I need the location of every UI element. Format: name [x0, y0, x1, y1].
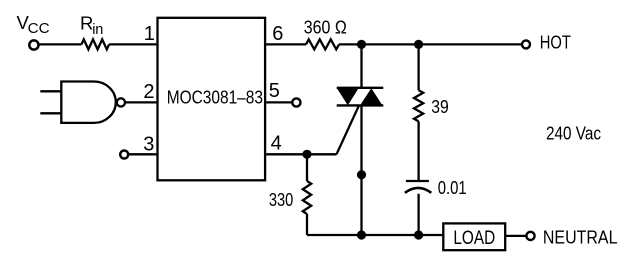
- wire: [40, 90, 61, 92]
- terminal VCC: [29, 40, 38, 49]
- label VCC: [17, 12, 50, 37]
- svg-text:NEUTRAL: NEUTRAL: [543, 226, 618, 247]
- resistor 39: [414, 44, 423, 180]
- label Rin: [80, 12, 103, 38]
- junction: [302, 150, 311, 159]
- NAND gate: [61, 82, 125, 123]
- resistor Rin: [82, 39, 110, 49]
- wire: [505, 235, 526, 237]
- svg-text:3: 3: [143, 133, 154, 155]
- wire: [265, 153, 336, 155]
- svg-text:1: 1: [144, 23, 155, 45]
- resistor 330: [303, 154, 311, 235]
- svg-text:HOT: HOT: [540, 32, 571, 53]
- svg-text:360 Ω: 360 Ω: [304, 16, 347, 37]
- wire: [265, 101, 292, 103]
- IC U1 MOC3081-83: [158, 18, 266, 181]
- junction: [414, 230, 423, 239]
- wire: [126, 101, 157, 103]
- junction: [357, 170, 366, 179]
- wire: [128, 153, 156, 155]
- svg-text:0.01: 0.01: [438, 177, 467, 198]
- svg-text:240 Vac: 240 Vac: [546, 123, 601, 144]
- svg-text:330: 330: [269, 189, 293, 210]
- terminal HOT: [522, 40, 530, 48]
- terminal pin3: [120, 151, 128, 159]
- wire: [265, 43, 306, 45]
- svg-text:in: in: [92, 22, 103, 38]
- svg-text:6: 6: [272, 23, 283, 45]
- capacitor 0.01: [405, 181, 431, 235]
- svg-text:LOAD: LOAD: [453, 227, 495, 249]
- svg-text:CC: CC: [28, 21, 50, 37]
- wire: [337, 105, 360, 154]
- svg-text:2: 2: [143, 81, 154, 103]
- junction: [414, 40, 423, 49]
- svg-text:MOC3081–83: MOC3081–83: [167, 86, 263, 107]
- terminal pin5: [292, 98, 300, 106]
- wire: [40, 112, 61, 114]
- junction: [357, 40, 366, 49]
- terminal NEUTRAL: [526, 232, 534, 240]
- junction: [357, 230, 366, 239]
- load box LOAD: [443, 223, 505, 250]
- wire: [39, 43, 82, 45]
- wire: [109, 43, 156, 45]
- wire: [339, 43, 522, 45]
- svg-text:39: 39: [431, 96, 449, 117]
- svg-text:4: 4: [271, 132, 282, 154]
- wire: [307, 234, 445, 236]
- resistor 360 ohm: [306, 39, 339, 49]
- triac Q1: [337, 44, 384, 235]
- svg-text:5: 5: [269, 80, 280, 102]
